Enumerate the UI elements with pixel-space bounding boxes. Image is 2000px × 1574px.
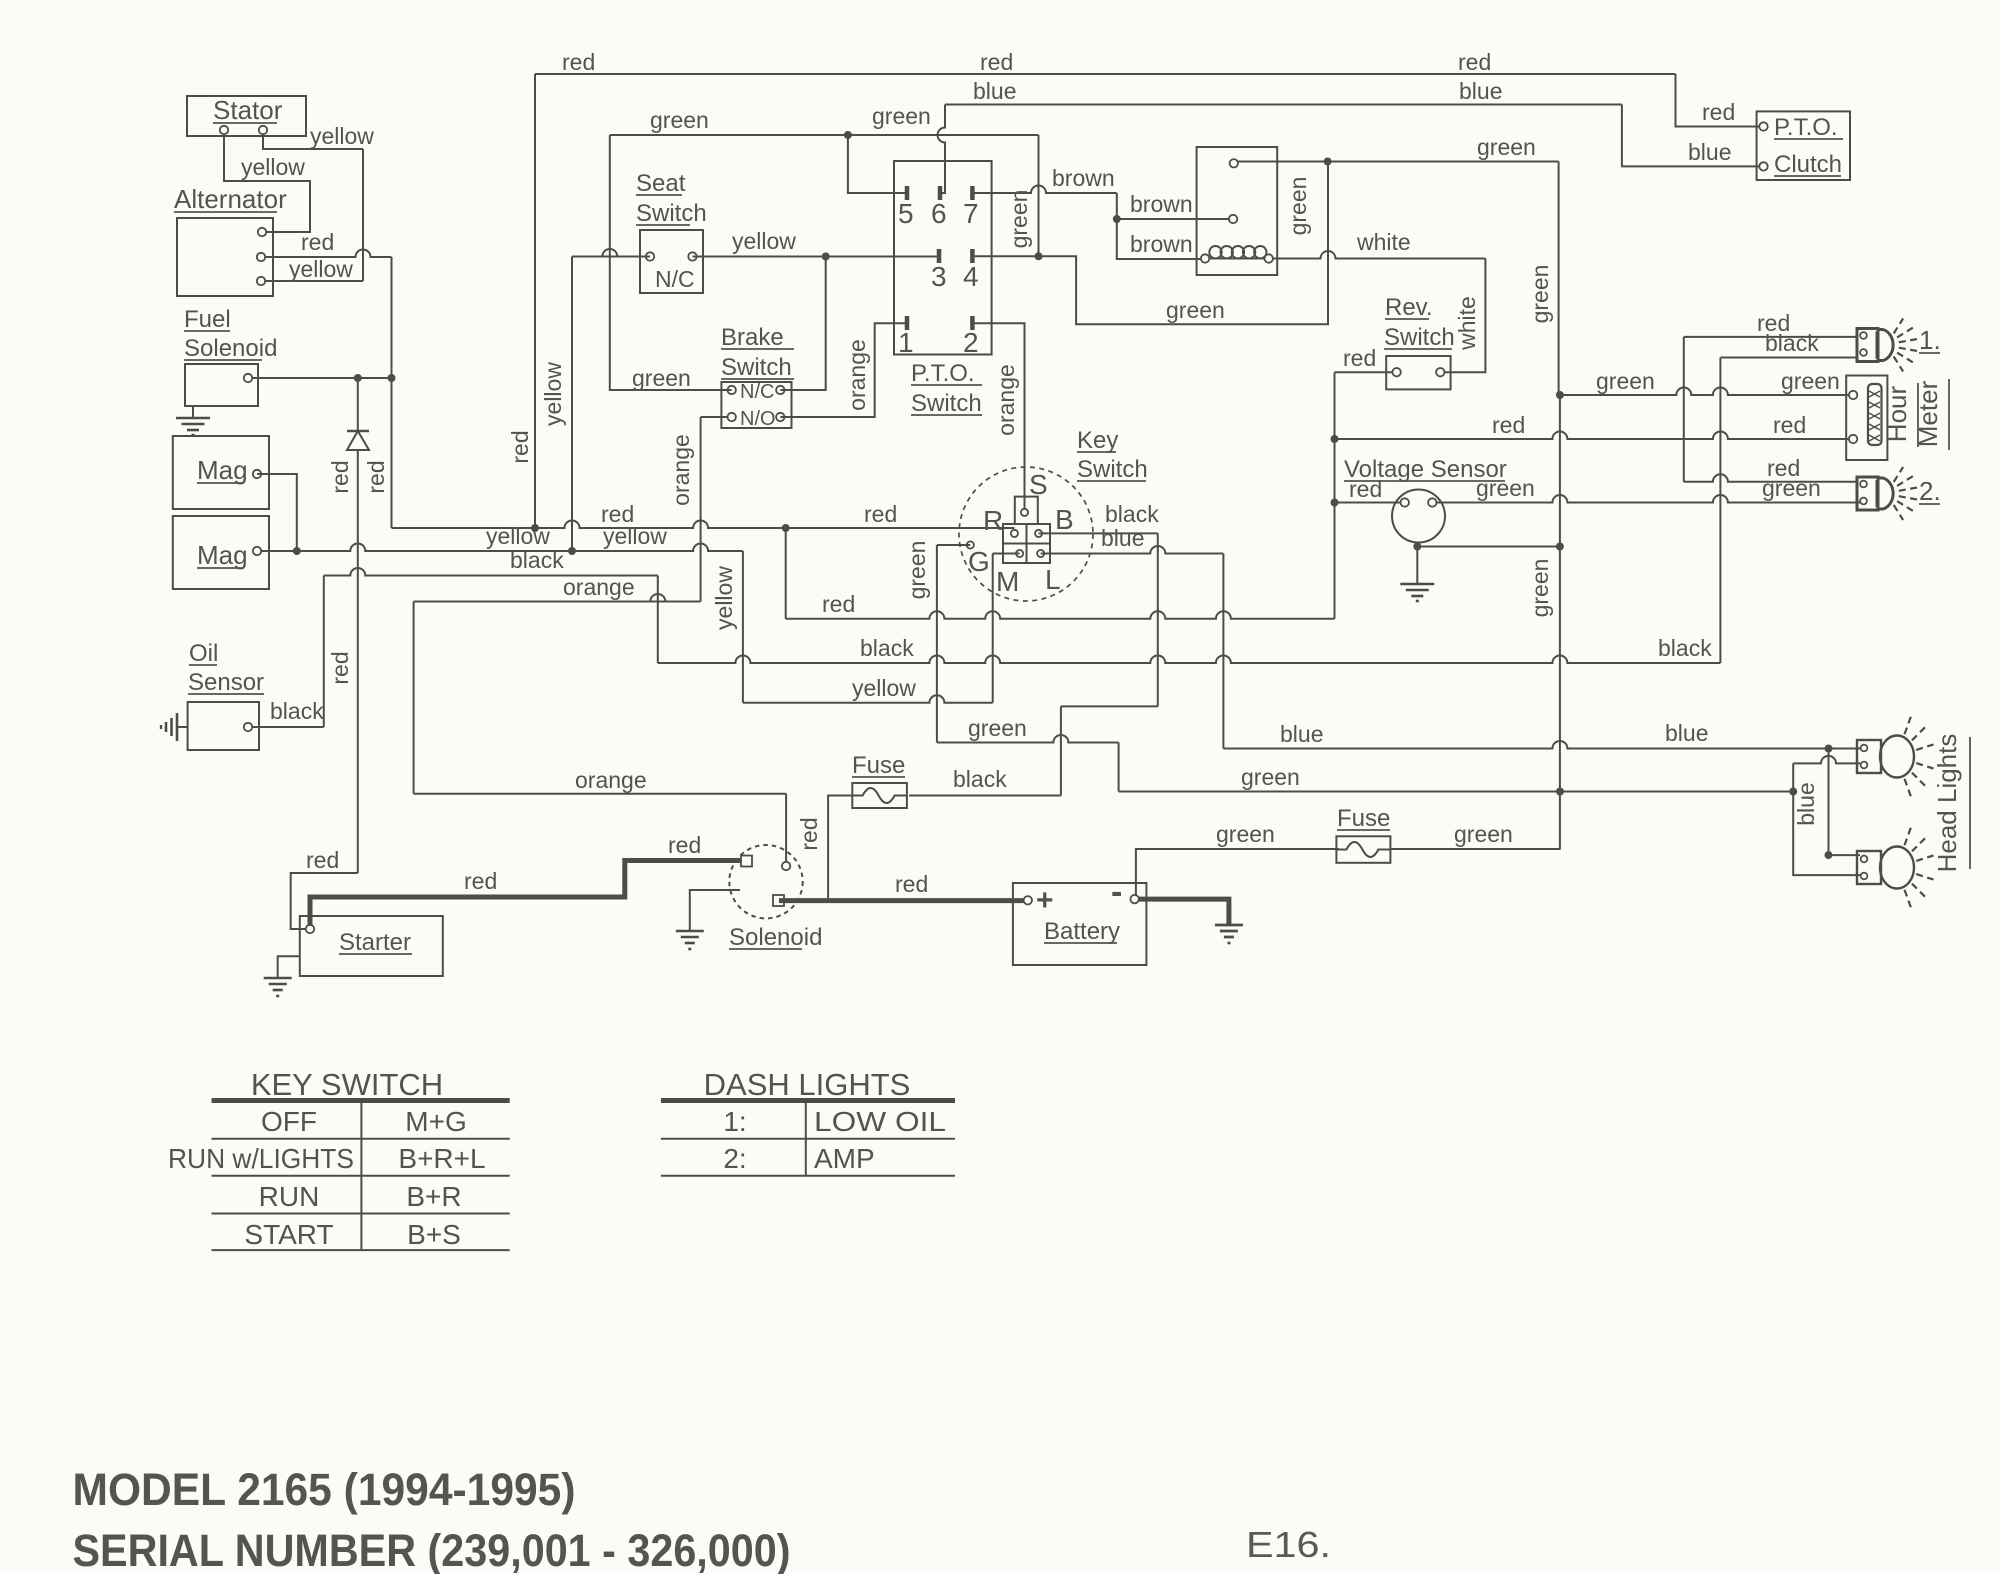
svg-text:P.T.O.: P.T.O. — [1774, 114, 1838, 141]
svg-text:red: red — [1767, 455, 1800, 481]
dash lights table — [661, 1098, 955, 1103]
wire green clutch vertical lower — [1559, 395, 1561, 849]
svg-text:7: 7 — [963, 198, 979, 229]
wire blue vertical down — [1222, 554, 1224, 749]
svg-text:Battery: Battery — [1044, 918, 1120, 945]
svg-text:black: black — [510, 547, 564, 573]
wire red below diode — [357, 450, 359, 873]
key switch table — [212, 1098, 510, 1103]
hour meter pin 2 — [1849, 435, 1857, 443]
svg-text:black: black — [1765, 330, 1819, 356]
svg-text:2.: 2. — [1919, 476, 1941, 506]
svg-text:red: red — [327, 460, 353, 493]
wire green lower bus — [1119, 791, 1794, 793]
wire green vertical from key G — [936, 545, 938, 743]
svg-text:orange: orange — [668, 434, 694, 506]
starter pin — [306, 925, 314, 933]
wire red top bus — [535, 73, 1676, 75]
svg-text:black: black — [1105, 501, 1159, 527]
svg-text:M: M — [996, 566, 1019, 597]
wire green key G stub — [937, 544, 970, 546]
svg-text:Fuse: Fuse — [852, 752, 905, 779]
svg-text:Switch: Switch — [911, 390, 982, 417]
thick red cable starter to solenoid — [310, 861, 744, 927]
wire green up to headlight 1 — [1792, 763, 1794, 791]
svg-text:Oil: Oil — [189, 640, 218, 667]
wire red from alternator middle pin — [265, 250, 392, 257]
wire red into PTO clutch — [1676, 74, 1760, 127]
wire black to lamp 1 — [1720, 357, 1857, 359]
svg-text:yellow: yellow — [486, 523, 550, 549]
svg-text:green: green — [968, 715, 1027, 741]
svg-text:Switch: Switch — [721, 354, 792, 381]
seat switch left pin — [646, 252, 654, 260]
PTO pin 5 tick — [905, 186, 910, 200]
wire red lamp riser — [1683, 337, 1685, 482]
junction fuel-solenoid/diode line — [354, 374, 362, 382]
wire black from key B — [1039, 532, 1158, 534]
head light 2 — [1857, 851, 1881, 884]
svg-text:Switch: Switch — [1384, 324, 1455, 351]
svg-text:R: R — [983, 505, 1003, 536]
relay coil — [1209, 246, 1221, 258]
wire blue riser to PTO pin 6 (hops green bus) — [938, 105, 945, 194]
wire green upper bus — [610, 134, 1039, 136]
svg-text:black: black — [270, 698, 324, 724]
wire green jog down — [1118, 743, 1120, 792]
alternator pin top — [258, 228, 266, 236]
svg-text:Sensor: Sensor — [188, 669, 264, 696]
junction red bus / tall red vertical — [531, 524, 539, 532]
svg-text:Solenoid: Solenoid — [729, 924, 822, 951]
wire red vertical tall left — [534, 74, 536, 528]
ground at oil sensor (sideways) — [177, 726, 188, 728]
ground at solenoid — [690, 890, 740, 931]
svg-text:red: red — [363, 460, 389, 493]
svg-text:black: black — [1658, 635, 1712, 661]
svg-text:Mag: Mag — [197, 455, 248, 485]
svg-text:B: B — [1055, 504, 1074, 535]
PTO pin 1 tick — [905, 316, 910, 330]
svg-text:red: red — [507, 430, 533, 463]
wire white from relay coil — [1273, 251, 1486, 259]
wire yellow vertical down — [742, 551, 744, 703]
svg-text:2: 2 — [963, 327, 979, 358]
svg-text:Rev.: Rev. — [1385, 294, 1433, 321]
svg-text:green: green — [1781, 368, 1840, 394]
wire yellow long bus from Mag2 — [261, 544, 743, 552]
svg-text:red: red — [668, 832, 701, 858]
svg-text:MODEL 2165 (1994-1995): MODEL 2165 (1994-1995) — [73, 1464, 576, 1515]
wire yellow vertical from key M — [992, 554, 994, 703]
wire yellow from alternator bottom pin — [265, 280, 363, 282]
svg-text:green: green — [1596, 368, 1655, 394]
wire green vertical PTO clutch area upper — [1558, 162, 1560, 396]
junction brown tee — [1113, 215, 1121, 223]
svg-text:G: G — [968, 546, 990, 577]
wire red long middle bus — [392, 521, 1015, 529]
wire red to lamp 2 — [1684, 474, 1857, 481]
stator box — [187, 96, 306, 136]
svg-text:red: red — [980, 49, 1013, 75]
svg-text:green: green — [632, 365, 691, 391]
thick red cable solenoid to battery — [779, 898, 1024, 903]
wire black jog to fuse drop — [1061, 705, 1158, 707]
svg-text:blue: blue — [1280, 721, 1323, 747]
key switch S terminal box — [1015, 497, 1038, 524]
wire yellow vertical seat to bus — [571, 257, 573, 552]
svg-text:OFF: OFF — [261, 1106, 317, 1137]
wire fuel solenoid to red vertical — [252, 377, 392, 379]
svg-text:B+R+L: B+R+L — [398, 1143, 485, 1174]
svg-text:red: red — [1492, 412, 1525, 438]
junction green hourmeter bus — [1556, 391, 1564, 399]
key pin L — [1037, 550, 1044, 557]
svg-text:2:: 2: — [723, 1143, 746, 1174]
wire black lamp1 riser — [1719, 358, 1721, 664]
wire yellow lower to key M — [743, 695, 993, 702]
svg-text:white: white — [1356, 229, 1411, 255]
svg-text:LOW OIL: LOW OIL — [814, 1106, 946, 1137]
svg-text:6: 6 — [931, 198, 947, 229]
svg-text:green: green — [1477, 134, 1536, 160]
svg-text:Fuel: Fuel — [184, 306, 231, 333]
fuel solenoid pin — [244, 374, 252, 382]
svg-text:Meter: Meter — [1913, 380, 1943, 447]
junction green VS ground — [1556, 543, 1564, 551]
svg-text:blue: blue — [1665, 720, 1708, 746]
seat switch right pin — [688, 252, 696, 260]
wire stator pin1 to alternator top (yellow) — [224, 134, 310, 232]
PTO pin 2 tick — [970, 316, 975, 330]
brake N/O right pin — [776, 413, 784, 421]
relay top pin — [1230, 159, 1238, 167]
svg-text:+: + — [1036, 884, 1054, 917]
solenoid circle — [729, 845, 802, 918]
rev switch box — [1386, 356, 1450, 389]
wire red into starter pin — [291, 873, 358, 929]
voltage sensor right pin — [1428, 498, 1436, 506]
svg-text:blue: blue — [1688, 139, 1731, 165]
svg-text:E16.: E16. — [1246, 1524, 1331, 1565]
junction blue headlight 2 — [1825, 851, 1833, 859]
junction green bus / clutch vertical — [1556, 788, 1564, 796]
svg-text:RUN w/LIGHTS: RUN w/LIGHTS — [168, 1143, 354, 1174]
wire green fuse2 to green vertical — [1390, 848, 1560, 850]
wire brown to relay middle pin — [1117, 218, 1229, 220]
wire blue top bus — [945, 104, 1622, 106]
svg-text:Key: Key — [1077, 427, 1118, 454]
wire orange brake N/O right to PTO pin1 — [780, 323, 907, 417]
battery box — [1013, 883, 1147, 965]
svg-text:brown: brown — [1130, 191, 1193, 217]
junction green headlight tee — [1789, 788, 1797, 796]
svg-text:red: red — [1702, 99, 1735, 125]
svg-text:red: red — [895, 871, 928, 897]
fuse 1 box — [852, 783, 907, 808]
svg-text:5: 5 — [898, 198, 914, 229]
wire orange into solenoid top pin — [785, 794, 787, 862]
wire orange middle bus — [414, 594, 701, 601]
key pin B — [1035, 530, 1042, 537]
svg-text:blue: blue — [1459, 78, 1502, 104]
svg-text:yellow: yellow — [732, 228, 796, 254]
seat switch box — [640, 230, 703, 293]
alternator pin bottom — [257, 277, 265, 285]
wire green vertical beside PTO switch — [1038, 135, 1040, 256]
wire black vertical from oil sensor — [323, 576, 325, 728]
svg-text:green: green — [1166, 297, 1225, 323]
key pin R — [1011, 530, 1018, 537]
svg-text:SERIAL NUMBER (239,001 - 326,0: SERIAL NUMBER (239,001 - 326,000) — [73, 1525, 791, 1574]
svg-text:4: 4 — [963, 261, 979, 292]
svg-text:Seat: Seat — [636, 170, 686, 197]
svg-text:N/C: N/C — [740, 381, 774, 403]
svg-text:green: green — [1527, 559, 1553, 618]
svg-text:orange: orange — [844, 339, 870, 411]
wire orange lower bus — [414, 793, 786, 795]
wire yellow vertical from stator pin2 — [362, 149, 364, 281]
wire green from relay top pin to PTO clutch drop — [1238, 161, 1559, 163]
junction green bus / PTO pin5 drop — [844, 131, 852, 139]
svg-text:green: green — [1006, 190, 1032, 249]
head light 1 — [1857, 740, 1881, 773]
svg-text:Head Lights: Head Lights — [1932, 734, 1962, 873]
svg-text:red: red — [306, 847, 339, 873]
ground below voltage sensor — [1416, 543, 1418, 585]
svg-text:green: green — [872, 103, 931, 129]
svg-text:blue: blue — [1793, 782, 1819, 825]
svg-text:red: red — [562, 49, 595, 75]
svg-text:yellow: yellow — [540, 362, 566, 426]
junction VS ground — [1413, 543, 1421, 551]
wire brown vertical + coil feed — [1117, 193, 1201, 259]
junction seat-yellow / brake N/C riser — [822, 253, 830, 261]
svg-text:N/C: N/C — [655, 266, 695, 292]
svg-text:Starter: Starter — [339, 929, 411, 956]
svg-text:yellow: yellow — [241, 154, 305, 180]
svg-text:yellow: yellow — [711, 566, 737, 630]
PTO clutch box — [1757, 111, 1850, 180]
svg-text:AMP: AMP — [814, 1143, 875, 1174]
svg-text:N/O: N/O — [740, 408, 776, 430]
svg-text:red: red — [327, 651, 353, 684]
key switch dashed circle — [959, 467, 1093, 601]
voltage sensor left pin — [1401, 498, 1409, 506]
hour meter pin 1 — [1849, 391, 1857, 399]
wire white down to rev switch — [1445, 259, 1486, 373]
svg-text:Switch: Switch — [636, 200, 707, 227]
svg-text:Hour: Hour — [1882, 385, 1912, 442]
svg-text:orange: orange — [563, 574, 635, 600]
svg-text:orange: orange — [575, 767, 647, 793]
dash lamp 1 — [1857, 329, 1878, 362]
svg-text:KEY SWITCH: KEY SWITCH — [251, 1067, 443, 1102]
svg-text:P.T.O.: P.T.O. — [911, 360, 975, 387]
svg-text:M+G: M+G — [405, 1106, 466, 1137]
svg-text:Brake: Brake — [721, 324, 784, 351]
hour meter display — [1868, 384, 1882, 445]
wire orange vertical down left — [413, 602, 415, 794]
key pin G — [967, 541, 974, 548]
wire green vertical relay tee down — [1327, 162, 1329, 325]
wire green from green vertical to brake N/C left — [610, 135, 732, 390]
junction red bus tee down — [782, 524, 790, 532]
wire black vertical from key B — [1157, 533, 1159, 706]
ground below starter — [278, 956, 300, 978]
oil sensor pin — [244, 723, 252, 731]
wire green from key G right — [937, 735, 1119, 742]
wire yellow key M stub — [993, 553, 1020, 555]
junction yellow bus / seat switch vertical — [568, 547, 576, 555]
svg-text:Clutch: Clutch — [1774, 151, 1842, 178]
svg-text:3: 3 — [931, 261, 947, 292]
wire yellow brake N/C right riser — [780, 257, 825, 391]
svg-text:red: red — [1458, 49, 1491, 75]
svg-text:Fuse: Fuse — [1337, 805, 1390, 832]
wire yellow seat switch left — [572, 249, 650, 257]
starter box — [300, 916, 443, 976]
svg-text:Stator: Stator — [213, 95, 283, 125]
solenoid pin squares — [741, 856, 752, 867]
wire blue into headlight 2 — [1829, 854, 1861, 856]
svg-text:red: red — [1773, 412, 1806, 438]
svg-text:green: green — [904, 541, 930, 600]
svg-text:1.: 1. — [1919, 325, 1941, 355]
wire green drop to PTO pin 5 — [848, 135, 907, 193]
wire black lower long bus — [658, 656, 1721, 664]
svg-text:red: red — [301, 229, 334, 255]
PTO clutch pin 1 — [1759, 122, 1767, 130]
svg-text:RUN: RUN — [259, 1181, 320, 1212]
svg-text:brown: brown — [1130, 231, 1193, 257]
brake N/C left pin — [728, 386, 736, 394]
key switch 2x2 terminal block — [1003, 524, 1050, 563]
svg-text:green: green — [1527, 265, 1553, 324]
wire green down to headlight 2 — [1793, 792, 1860, 876]
svg-text:Alternator: Alternator — [174, 184, 287, 214]
wire blue from key L — [1041, 546, 1224, 554]
mag2 pin — [253, 547, 261, 555]
svg-text:B+R: B+R — [406, 1181, 461, 1212]
brake N/O left pin — [728, 413, 736, 421]
relay coil left pin — [1201, 254, 1209, 262]
rev switch right pin — [1436, 368, 1444, 376]
wire red into rev switch — [1335, 371, 1393, 373]
PTO pin 7 tick — [970, 186, 975, 200]
ground below fuel solenoid — [192, 406, 194, 418]
junction fuel-solenoid/red vertical — [388, 374, 396, 382]
red vertical from alternator down to long red wire — [391, 257, 393, 528]
svg-text:green: green — [1216, 821, 1275, 847]
hour meter box — [1846, 376, 1887, 461]
wire orange vertical from brake N/O — [700, 417, 702, 602]
wire red lower bus to rev switch — [786, 611, 1335, 618]
svg-text:orange: orange — [993, 364, 1019, 436]
svg-text:green: green — [1454, 821, 1513, 847]
wire red to hour meter — [1335, 432, 1850, 439]
svg-text:yellow: yellow — [289, 256, 353, 282]
svg-text:black: black — [860, 635, 914, 661]
solenoid orange pin — [782, 862, 790, 870]
voltage sensor circle — [1392, 490, 1445, 543]
wire brown from PTO pin 7 — [972, 186, 1116, 193]
svg-text:Solenoid: Solenoid — [184, 335, 277, 362]
relay middle pin — [1229, 215, 1237, 223]
fuse 2 box — [1336, 836, 1390, 863]
wire stator pin2 right (yellow) — [263, 134, 363, 149]
wire red vertical to rev switch — [1334, 372, 1336, 619]
wire red tee down from red bus — [785, 528, 787, 619]
PTO switch box — [894, 161, 992, 355]
junction red voltage sensor — [1331, 499, 1339, 507]
stator pin 2 — [259, 126, 267, 134]
wire black jog down — [657, 576, 659, 664]
svg-text:red: red — [822, 591, 855, 617]
alternator box — [177, 218, 273, 296]
svg-text:1: 1 — [898, 327, 914, 358]
thick cable battery minus to ground — [1139, 899, 1229, 924]
svg-text:DASH LIGHTS: DASH LIGHTS — [704, 1067, 911, 1102]
wire green pin4 loop to relay junction — [1039, 162, 1329, 325]
svg-text:brown: brown — [1052, 165, 1115, 191]
diode D1 line from fuel solenoid junction down to starter — [357, 378, 359, 431]
rev switch left pin — [1392, 368, 1400, 376]
svg-text:green: green — [650, 107, 709, 133]
relay coil right pin — [1265, 254, 1273, 262]
wire yellow seat right to PTO pin3 — [693, 256, 940, 258]
svg-text:S: S — [1029, 469, 1048, 500]
dash lamp 2 — [1857, 477, 1878, 510]
wire black vertical to fuse1 — [1060, 706, 1062, 795]
wire VS ground link to green vertical — [1417, 546, 1560, 548]
wire green to hour meter — [1560, 388, 1849, 396]
wire mag1 down to yellow bus — [257, 474, 297, 551]
svg-text:green: green — [1476, 475, 1535, 501]
svg-text:red: red — [864, 501, 897, 527]
wire green battery minus to fuse 2 — [1136, 849, 1339, 895]
junction red rev/meter — [1331, 435, 1339, 443]
svg-text:B+S: B+S — [407, 1219, 461, 1250]
junction mag1/mag2 — [293, 547, 301, 555]
svg-text:red: red — [796, 817, 822, 850]
svg-text:yellow: yellow — [310, 123, 374, 149]
relay box — [1197, 147, 1278, 275]
fuel solenoid box — [185, 364, 258, 406]
wire pin4 to green junction — [972, 255, 1038, 257]
svg-text:blue: blue — [1101, 525, 1144, 551]
brake switch box — [721, 382, 791, 428]
svg-text:Switch: Switch — [1077, 456, 1148, 483]
svg-text:1:: 1: — [723, 1106, 746, 1137]
wire green into headlight 1 — [1793, 756, 1860, 763]
svg-text:blue: blue — [973, 78, 1016, 104]
mag1 pin — [253, 470, 261, 478]
svg-text:green: green — [1285, 177, 1311, 236]
svg-text:-: - — [1111, 873, 1122, 911]
wire blue vertical to headlight 2 — [1828, 749, 1830, 856]
wire orange upper from brake N/O — [701, 416, 732, 418]
wire orange PTO pin2 to key S — [972, 323, 1024, 508]
svg-text:yellow: yellow — [852, 675, 916, 701]
PTO pin 6 tick — [938, 186, 943, 200]
wire green from voltage sensor to lamp 2 — [1436, 495, 1860, 503]
wire black into fuse1 — [909, 795, 1061, 797]
oil sensor box — [188, 702, 259, 750]
wire blue lower bus to headlight 1 — [1223, 741, 1860, 749]
PTO pin 4 tick — [970, 249, 975, 263]
battery + pin — [1024, 896, 1032, 904]
